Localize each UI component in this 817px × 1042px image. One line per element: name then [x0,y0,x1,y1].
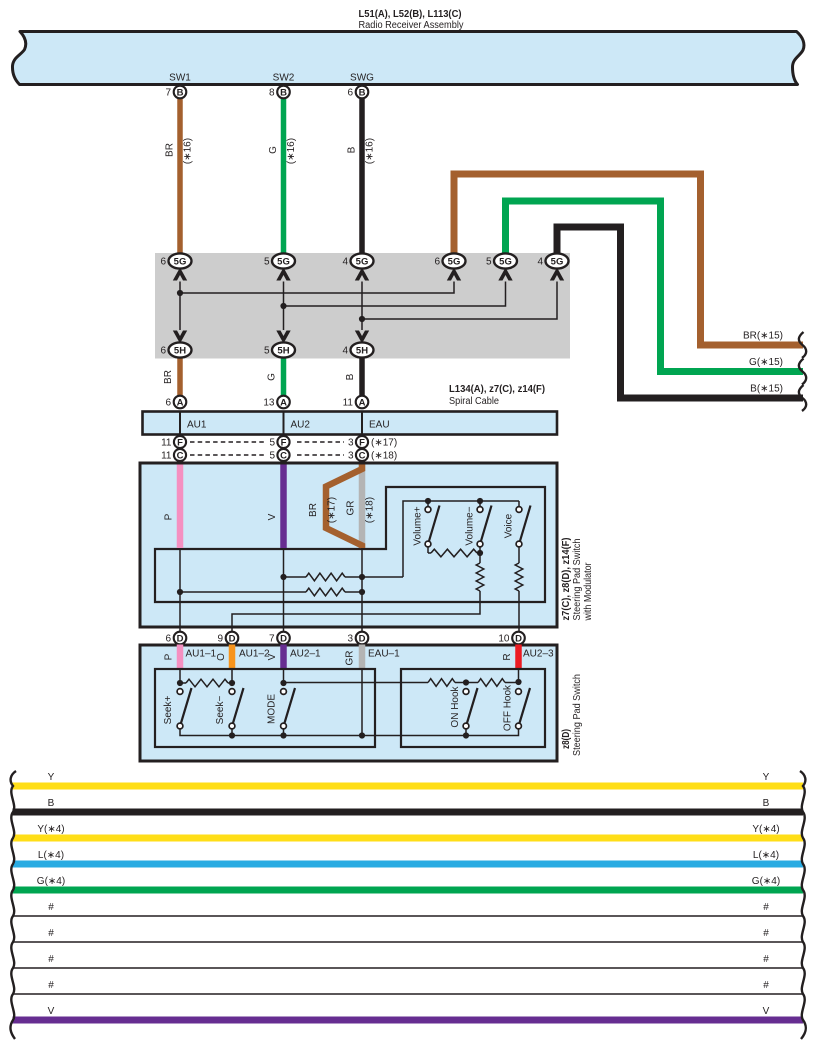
svg-text:6: 6 [160,346,166,357]
spiral cable divider AU2 [283,412,285,434]
switch Seek+ [177,689,183,695]
wire O to seek- [231,669,233,683]
svg-text:C: C [177,450,184,461]
connector arrow up 5G [498,268,512,281]
svg-text:4: 4 [342,346,348,357]
switch ON Hook [463,689,469,695]
wire col3 down to D3 [361,549,363,632]
svg-text:Steering Pad Switch: Steering Pad Switch [572,539,583,621]
svg-text:Spiral Cable: Spiral Cable [449,396,499,407]
connector 5H pin 6 [169,342,192,357]
wire BR brown bulge [326,465,362,549]
svg-text:#: # [763,928,769,939]
svg-text:D: D [280,633,287,644]
svg-text:B: B [345,373,356,380]
connector B pin 8 [277,86,290,99]
switch Volume+ [427,501,429,506]
svg-text:F: F [359,437,365,448]
connector 5H pin 4 [351,342,374,357]
svg-text:G(∗15): G(∗15) [749,357,783,368]
steering pad switch box U2 [140,645,557,761]
svg-text:BR(∗15): BR(∗15) [743,331,783,342]
svg-text:Y(∗4): Y(∗4) [752,824,779,835]
svg-text:AU2: AU2 [291,420,311,431]
svg-text:7: 7 [165,88,171,99]
svg-text:4: 4 [537,257,543,268]
junction dots box1 [425,498,431,504]
wire BR from 5H-6 to A-6 [177,357,183,396]
switch stubs to bus [231,728,233,736]
connector 5G pin 6 [169,253,192,268]
svg-text:(∗16): (∗16) [365,138,376,164]
svg-text:6: 6 [165,634,171,645]
svg-text:5: 5 [264,346,270,357]
wire junction row1 to 5G-6 [180,282,454,294]
svg-text:#: # [763,954,769,965]
svg-text:L(∗4): L(∗4) [38,850,64,861]
wire run V row 10 [13,1017,804,1024]
right torn edge [800,771,806,1039]
connector arrow up 5G [550,268,564,281]
svg-text:G(∗4): G(∗4) [37,876,65,887]
wire run Y(*4) row 3 [13,835,804,842]
connector arrow up 5G [355,268,369,281]
switch Seek- [229,689,235,695]
svg-text:BR: BR [308,503,319,517]
connector arrow up 5G [173,268,187,281]
resistor R-onhook [428,679,455,687]
connector D pin 9 [226,632,239,645]
svg-text:Y: Y [48,772,55,783]
wire R to hook [518,669,520,682]
wire voice to D10 [518,591,520,632]
wire resistor row1 [284,576,307,578]
svg-text:6: 6 [160,257,166,268]
svg-text:V: V [48,1006,55,1017]
wire R stub [515,645,522,670]
connector D pin 3 [356,632,369,645]
connector C pin 5 [277,449,289,461]
svg-text:G(∗4): G(∗4) [752,876,780,887]
dashed wire F row [190,441,266,443]
wire G(*15) from 5G-5 to right edge [506,201,804,372]
wire V to mode [283,669,285,683]
svg-text:5: 5 [264,257,270,268]
svg-text:EAU: EAU [369,420,390,431]
connector D pin 10 [512,632,525,645]
svg-text:#: # [763,902,769,913]
wire-break squiggle [799,359,806,385]
svg-text:8: 8 [269,88,275,99]
connector 5G pin 4 [351,253,374,268]
wire O stub [229,645,236,670]
connector arrow up 5G [447,268,461,281]
svg-text:R: R [502,653,513,660]
svg-text:Radio Receiver Assembly: Radio Receiver Assembly [359,20,464,31]
junction dots box2 [177,680,183,686]
svg-text:11: 11 [343,398,354,409]
wire resistor row2 [180,591,306,593]
svg-text:3: 3 [347,634,353,645]
junction node col2 [280,303,286,309]
svg-text:6: 6 [347,88,353,99]
wire shield col1 [179,282,181,331]
connector arrow down 5H [355,331,369,344]
svg-text:C: C [280,450,287,461]
resistor R-seek [306,588,345,596]
svg-text:Y: Y [763,772,770,783]
wire G from SW2 pin8 to 5G pin5 [281,98,287,254]
svg-text:V: V [267,653,278,660]
svg-text:5G: 5G [499,256,512,267]
connector A pin 6 [174,396,187,409]
wire BR from SW1 pin7 to 5G pin6 [177,98,183,254]
svg-text:7: 7 [269,634,275,645]
svg-text:#: # [48,928,54,939]
svg-text:B: B [763,798,770,809]
connector D pin 6 [174,632,187,645]
svg-text:5H: 5H [277,345,289,356]
connector D pin 7 [277,632,290,645]
svg-text:Seek−: Seek− [215,696,226,725]
wire volume-minus to D9 [232,591,480,632]
dashed wire C row [190,454,266,456]
svg-text:(∗17): (∗17) [371,438,397,449]
svg-text:B: B [280,87,287,98]
svg-text:AU1–1: AU1–1 [186,649,217,660]
svg-text:5: 5 [269,451,275,462]
svg-text:SW1: SW1 [169,73,191,84]
wire mode to hook resistors [284,682,429,684]
shielded cable gray band [155,253,570,359]
bus loop wire [155,487,545,602]
wire B(*15) from 5G-4 to right edge [557,227,803,398]
svg-text:O: O [216,653,227,661]
wire B from SWG pin6 to 5G pin4 [359,98,365,254]
svg-text:(∗18): (∗18) [371,451,397,462]
connector arrow down 5H [276,331,290,344]
wire B from 5H-4 to A-11 [359,357,365,396]
connector F pin 3 [356,436,368,448]
svg-text:EAU–1: EAU–1 [368,649,400,660]
svg-text:AU1–2: AU1–2 [239,649,270,660]
wire P pink [177,465,184,549]
wire run # row 8 [13,967,804,969]
svg-text:5H: 5H [356,345,368,356]
connector C pin 11 [174,449,186,461]
wire junction row2 to 5G-5 [284,282,506,307]
svg-text:SWG: SWG [350,73,374,84]
svg-text:#: # [48,954,54,965]
svg-text:C: C [359,450,366,461]
radio receiver assembly band [12,32,803,85]
svg-text:Voice: Voice [504,513,515,538]
svg-text:OFF Hook: OFF Hook [503,684,514,731]
svg-text:ON Hook: ON Hook [450,685,461,727]
svg-text:10: 10 [498,634,510,645]
wire col1 down to D6 [179,549,181,632]
wire col2 down to D7 [283,549,285,632]
inner switch box left [155,669,375,747]
wire junction row3 to 5G-4 [362,282,557,320]
svg-text:A: A [280,397,287,408]
svg-text:Seek+: Seek+ [163,696,174,725]
svg-text:(∗16): (∗16) [183,138,194,164]
wire BR(*15) from 5G-6 to right edge [454,174,803,345]
wire GR gray [359,465,366,549]
svg-text:9: 9 [217,634,223,645]
svg-text:B: B [359,87,366,98]
svg-text:11: 11 [161,438,172,449]
switch Voice [518,501,520,506]
connector 5G pin 5 [272,253,295,268]
wire V violet [280,465,287,549]
spiral cable divider AU1 [179,412,181,434]
svg-text:AU2–3: AU2–3 [523,649,554,660]
svg-text:GR: GR [346,501,357,516]
svg-text:5G: 5G [551,256,564,267]
connector 5G pin 5 right set [494,253,517,268]
wire run B row 2 [13,809,804,816]
resistor R-vol+ [428,552,431,554]
connector F pin 11 [174,436,186,448]
svg-text:z8(D): z8(D) [561,729,572,749]
svg-text:3: 3 [348,438,354,449]
svg-text:A: A [359,397,366,408]
wire run # row 9 [13,993,804,995]
svg-text:(∗18): (∗18) [365,497,376,523]
svg-text:Volume−: Volume− [465,506,476,545]
svg-text:V: V [763,1006,770,1017]
svg-text:P: P [164,653,175,660]
connector arrow up 5G [276,268,290,281]
switch MODE [281,689,287,695]
wire P stub [177,645,184,670]
svg-text:#: # [763,980,769,991]
svg-text:Steering Pad Switch: Steering Pad Switch [572,674,583,756]
svg-text:BR: BR [163,370,174,384]
wire V stub [280,645,287,670]
wire-break squiggle [799,385,806,411]
svg-text:13: 13 [263,398,275,409]
svg-text:G: G [268,146,279,154]
svg-text:(∗16): (∗16) [286,138,297,164]
connector arrow down 5H [173,331,187,344]
wire switch top bus [403,501,519,577]
svg-text:D: D [515,633,522,644]
connector 5H pin 5 [272,342,295,357]
svg-text:G: G [267,373,278,381]
svg-text:L(∗4): L(∗4) [753,850,779,861]
wire GR to bottom bus [361,669,363,736]
svg-text:MODE: MODE [267,694,278,724]
svg-text:5H: 5H [174,345,186,356]
resistor R-vol [306,573,345,581]
switch OFF Hook [516,689,522,695]
svg-text:#: # [48,902,54,913]
svg-text:#: # [48,980,54,991]
switch Volume- [479,501,481,506]
connector F pin 5 [277,436,289,448]
resistor R-seekpm [180,682,186,684]
wire shield col3 [361,282,363,331]
resistor R-volminus [479,553,481,563]
resistor R-voice [515,563,523,591]
svg-text:with Modulator: with Modulator [583,562,594,621]
wire P to seek+ [179,669,181,683]
svg-text:SW2: SW2 [273,73,295,84]
wire shield col2 [283,282,285,331]
junction node col1 [177,290,183,296]
svg-text:5G: 5G [356,256,369,267]
connector A pin 11 [356,396,369,409]
svg-text:B: B [48,798,55,809]
svg-text:5: 5 [486,257,492,268]
inner switch box right [401,669,545,747]
svg-text:Volume+: Volume+ [413,506,424,545]
svg-text:6: 6 [434,257,440,268]
svg-text:AU1: AU1 [187,420,207,431]
svg-text:3: 3 [348,451,354,462]
svg-text:F: F [281,437,287,448]
svg-text:5G: 5G [277,256,290,267]
svg-text:P: P [164,513,175,520]
steering pad switch with modulator box U1 [140,463,557,627]
left torn edge [10,771,16,1039]
svg-text:GR: GR [345,651,356,666]
svg-text:5G: 5G [448,256,461,267]
connector B pin 6 [356,86,369,99]
wire G from 5H-5 to A-13 [281,357,287,396]
svg-text:L134(A), z7(C), z14(F): L134(A), z7(C), z14(F) [449,384,545,395]
svg-text:B(∗15): B(∗15) [750,384,783,395]
junction node col3 [359,316,365,322]
wire run G(*4) row 5 [13,887,804,894]
svg-text:B: B [347,146,358,153]
resistor R-offhook [466,682,478,684]
svg-text:L51(A), L52(B), L113(C): L51(A), L52(B), L113(C) [359,9,462,20]
wire run L(*4) row 4 [13,861,804,868]
connector C pin 3 [356,449,368,461]
connector A pin 13 [277,396,290,409]
connector B pin 7 [174,86,187,99]
svg-text:Y(∗4): Y(∗4) [37,824,64,835]
svg-text:V: V [267,513,278,520]
svg-text:6: 6 [165,398,171,409]
connector 5G pin 4 right set [546,253,569,268]
wire GR stub [359,645,366,670]
svg-text:5G: 5G [174,256,187,267]
svg-text:11: 11 [161,451,172,462]
svg-text:D: D [359,633,366,644]
svg-text:z7(C), z8(D), z14(F): z7(C), z8(D), z14(F) [561,538,572,621]
connector 5G pin 6 right set [443,253,466,268]
svg-text:AU2–1: AU2–1 [290,649,321,660]
svg-text:4: 4 [342,257,348,268]
svg-text:F: F [177,437,183,448]
svg-text:B: B [177,87,184,98]
svg-text:A: A [177,397,184,408]
wire run # row 6 [13,915,804,917]
wire-break squiggle [799,332,806,358]
wire run # row 7 [13,941,804,943]
spiral cable band [143,412,558,435]
bottom bus [180,728,466,736]
svg-text:D: D [177,633,184,644]
wire run Y row 1 [13,783,804,790]
svg-text:5: 5 [269,438,275,449]
svg-text:(∗17): (∗17) [327,497,338,523]
svg-text:D: D [229,633,236,644]
svg-text:BR: BR [165,143,176,157]
spiral cable divider EAU [361,412,363,434]
